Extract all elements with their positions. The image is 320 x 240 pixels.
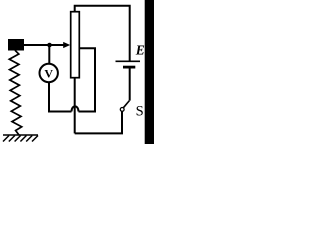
battery E short plate: [123, 66, 135, 69]
potentiometer R (slide rheostat body): [71, 12, 80, 78]
wire junction to voltmeter: [48, 45, 50, 64]
wire switch to bottom: [75, 111, 122, 133]
battery E long plate: [116, 60, 141, 62]
wire hop over vertical wire: [72, 106, 79, 111]
svg-text:E: E: [135, 43, 145, 58]
spring (zigzag): [9, 50, 21, 135]
wire voltmeter bottom: [49, 83, 72, 112]
wire rheostat bottom stub: [74, 78, 76, 134]
svg-text:S: S: [136, 103, 144, 119]
switch pivot circle: [120, 108, 124, 112]
wire battery to switch: [129, 69, 131, 101]
wire hop to wiper tap: [79, 48, 96, 111]
switch S blade: [123, 101, 129, 108]
wire from block to wiper: [24, 44, 65, 46]
ground: [3, 135, 38, 142]
mass block (black square): [8, 39, 24, 51]
wiper arrowhead: [63, 42, 70, 48]
wire rheostat top stub: [75, 6, 130, 62]
black sidebar: [145, 0, 154, 144]
node junction dot: [47, 43, 52, 48]
svg-text:V: V: [44, 67, 53, 81]
voltmeter V: [40, 64, 58, 82]
